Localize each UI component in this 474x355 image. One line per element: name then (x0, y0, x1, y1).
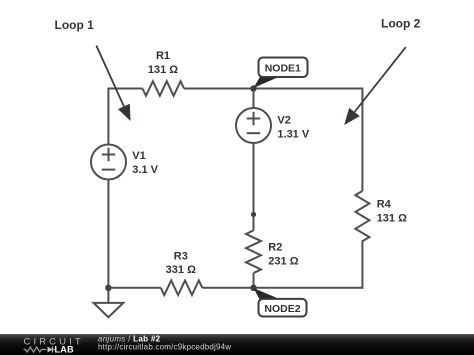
svg-text:http://circuitlab.com/c9kpcedb: http://circuitlab.com/c9kpcedbdj94w (98, 342, 231, 351)
wire V2 bottom to mid junction (253, 143, 255, 215)
voltage source V1 (91, 145, 126, 180)
label R4 value 131 ohm (377, 213, 407, 225)
footer logo CIRCUIT (24, 336, 84, 347)
wire R4 bottom to corner (361, 240, 363, 288)
svg-text:NODE1: NODE1 (265, 63, 301, 75)
footer bar (0, 334, 474, 355)
footer url line (98, 342, 231, 351)
junction dot NODE1 (250, 85, 256, 91)
junction dot NODE2 (250, 285, 256, 291)
footer logo diode (48, 347, 56, 353)
svg-text:NODE2: NODE2 (264, 303, 300, 315)
wire V1 bottom to ground junction (107, 180, 109, 289)
label V2 (277, 115, 290, 127)
resistor R3 (161, 280, 203, 295)
footer logo resistor squiggle (24, 347, 47, 352)
voltage source V2 (236, 108, 271, 143)
svg-text:Loop 2: Loop 2 (381, 16, 421, 30)
node NODE2 label box (259, 299, 307, 317)
ground (94, 303, 124, 317)
node NODE2 callout wedge (254, 288, 281, 299)
node NODE1 label box (259, 58, 308, 78)
wire top-left horizontal to R1 (108, 88, 142, 90)
junction dot middle branch (251, 212, 256, 217)
wire R1 to node1 junction (184, 88, 254, 90)
svg-text:R2: R2 (268, 242, 282, 254)
svg-text:1.31 V: 1.31 V (277, 129, 309, 141)
label V1 (132, 150, 145, 162)
svg-text:LAB: LAB (55, 345, 75, 355)
wire R2 bottom to node2 junction (253, 273, 255, 288)
svg-text:R4: R4 (377, 199, 392, 211)
label R3 value 331 ohm (166, 264, 196, 276)
svg-text:R3: R3 (174, 251, 188, 263)
annotation text Loop 1 (55, 18, 95, 32)
svg-text:231 Ω: 231 Ω (268, 256, 298, 268)
wire left vertical top (corner to V1) (107, 88, 109, 145)
svg-text:V2: V2 (277, 115, 290, 127)
annotation text Loop 2 (381, 16, 421, 30)
label R1 (156, 50, 170, 62)
svg-text:V1: V1 (132, 150, 145, 162)
annotation arrow Loop 2 (344, 47, 406, 125)
wire node2 junction to bottom-right corner (254, 287, 363, 289)
label R2 value 231 ohm (268, 256, 298, 268)
label R2 (268, 242, 282, 254)
node NODE1 callout wedge (254, 77, 280, 88)
wire ground stub (107, 288, 109, 303)
wire node1 junction down to V2 (253, 89, 255, 109)
resistor R2 (246, 230, 261, 273)
svg-text:331 Ω: 331 Ω (166, 264, 196, 276)
resistor R1 (143, 81, 185, 96)
label V2 value 1.31 V (277, 129, 309, 141)
label R3 (174, 251, 188, 263)
annotation arrow Loop 1 (96, 46, 130, 122)
wire right vertical top (corner to R4) (361, 88, 363, 192)
svg-text:131 Ω: 131 Ω (148, 64, 178, 76)
footer logo LAB (55, 345, 75, 355)
label R4 (377, 199, 392, 211)
label V1 value 3.1 V (132, 164, 158, 176)
resistor R4 (355, 191, 369, 241)
junction dot bottom-left (105, 285, 111, 291)
wire mid junction to R2 (253, 215, 255, 231)
svg-text:Loop 1: Loop 1 (55, 18, 95, 32)
wire node1 junction to top-right corner (254, 88, 363, 90)
svg-text:3.1 V: 3.1 V (132, 164, 158, 176)
wire R3 to node2 junction (202, 287, 253, 289)
wire bottom-left to R3 (108, 287, 160, 289)
svg-text:131 Ω: 131 Ω (377, 213, 407, 225)
label R1 value 131 ohm (148, 64, 178, 76)
footer credit line (98, 334, 161, 343)
svg-text:R1: R1 (156, 50, 170, 62)
